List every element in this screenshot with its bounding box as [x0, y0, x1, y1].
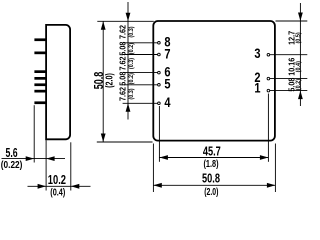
svg-text:5.08: 5.08	[118, 41, 128, 56]
svg-text:45.7: 45.7	[203, 145, 221, 159]
pin 7 circle	[158, 53, 161, 56]
extension line bottom edge left	[97, 141, 153, 143]
pin 8 circle	[158, 42, 161, 45]
svg-text:7: 7	[164, 46, 170, 61]
dimension 50.8 bottom left arrow	[153, 183, 162, 188]
svg-text:7.62: 7.62	[118, 56, 128, 71]
svg-text:(0.4): (0.4)	[296, 61, 302, 72]
dimension 45.7 left arrow	[159, 155, 168, 160]
extension line pin tip	[33, 105, 35, 162]
pin 6 circle	[158, 71, 161, 74]
left chain dimension line	[127, 2, 129, 21]
dimension 5.6 right arrow	[46, 156, 55, 161]
pin 8 tick	[123, 42, 158, 44]
dimension 50.8 bottom arrow	[101, 134, 106, 143]
svg-text:(0.3): (0.3)	[129, 26, 135, 37]
svg-text:(1.8): (1.8)	[203, 158, 218, 169]
extension line top edge left	[97, 20, 154, 22]
dimension 5.6 left arrow	[26, 156, 35, 161]
extension line pin4 down	[158, 106, 160, 162]
dimension 5.6 line	[2, 158, 66, 160]
svg-text:1: 1	[254, 81, 260, 96]
dimension 10.2 left arrow	[38, 184, 47, 189]
pin 4 tick	[123, 102, 158, 104]
dimension 50.8 bottom line	[153, 184, 275, 186]
svg-text:(2.0): (2.0)	[104, 73, 115, 88]
side view pin bar row1	[34, 38, 46, 41]
dimension 50.8 top arrow	[101, 21, 106, 30]
svg-text:5.08: 5.08	[118, 71, 128, 86]
side view pin bar row4	[34, 77, 46, 80]
svg-text:(0.2): (0.2)	[129, 73, 135, 84]
right chain bottom arrow	[298, 91, 303, 100]
dimension 50.8 vertical line	[102, 21, 104, 142]
svg-text:4: 4	[164, 95, 170, 110]
side view package outline	[46, 25, 70, 139]
dimension 10.2 line	[28, 185, 91, 187]
extension line side box left	[45, 140, 47, 190]
dimension 10.2 right arrow	[71, 184, 80, 189]
side view pin bar row5	[34, 83, 46, 86]
extension line box left down	[152, 144, 154, 193]
pin 3 tick	[270, 54, 308, 56]
svg-text:(0.2): (0.2)	[296, 79, 302, 90]
pin 1 circle	[267, 89, 270, 92]
pin 1 tick	[270, 90, 308, 92]
svg-text:50.8: 50.8	[202, 172, 220, 186]
left chain top arrow	[126, 13, 131, 21]
pin 2 tick	[270, 78, 308, 80]
left chain bottom arrow	[126, 103, 131, 112]
right chain top arrow	[298, 13, 303, 22]
svg-text:(2.0): (2.0)	[204, 186, 218, 198]
pin 6 tick	[123, 72, 158, 74]
svg-text:(0.2): (0.2)	[129, 43, 135, 54]
pin 4 circle	[158, 102, 161, 105]
svg-text:7.62: 7.62	[118, 24, 128, 39]
pin 5 circle	[158, 84, 161, 87]
svg-text:7.62: 7.62	[118, 86, 128, 101]
svg-text:(0.4): (0.4)	[50, 186, 65, 197]
side view pin bar row2	[34, 52, 46, 55]
pin 3 circle	[267, 53, 270, 56]
side view pin bar row7	[34, 101, 46, 104]
pin 5 tick	[123, 84, 158, 86]
pin 2 circle	[267, 77, 270, 80]
dimension 45.7 line	[159, 157, 268, 159]
top view package outline	[153, 21, 275, 141]
side view pin bar row3	[34, 70, 46, 73]
svg-text:5: 5	[164, 77, 170, 92]
svg-text:(0.3): (0.3)	[129, 88, 135, 99]
right chain dimension line	[299, 3, 301, 21]
extension line top edge right	[276, 20, 308, 22]
pin 7 tick	[123, 54, 158, 56]
svg-text:3: 3	[254, 46, 260, 61]
svg-text:(0.3): (0.3)	[129, 58, 135, 69]
svg-text:(0.5): (0.5)	[296, 32, 302, 43]
side view pin bar row6	[34, 90, 46, 93]
svg-text:(0.22): (0.22)	[1, 159, 23, 170]
dimension 50.8 bottom right arrow	[267, 183, 276, 188]
extension line side box right	[70, 142, 72, 190]
extension line pin1 down	[267, 94, 269, 162]
extension line box right down	[274, 144, 276, 193]
dimension 45.7 right arrow	[260, 155, 269, 160]
